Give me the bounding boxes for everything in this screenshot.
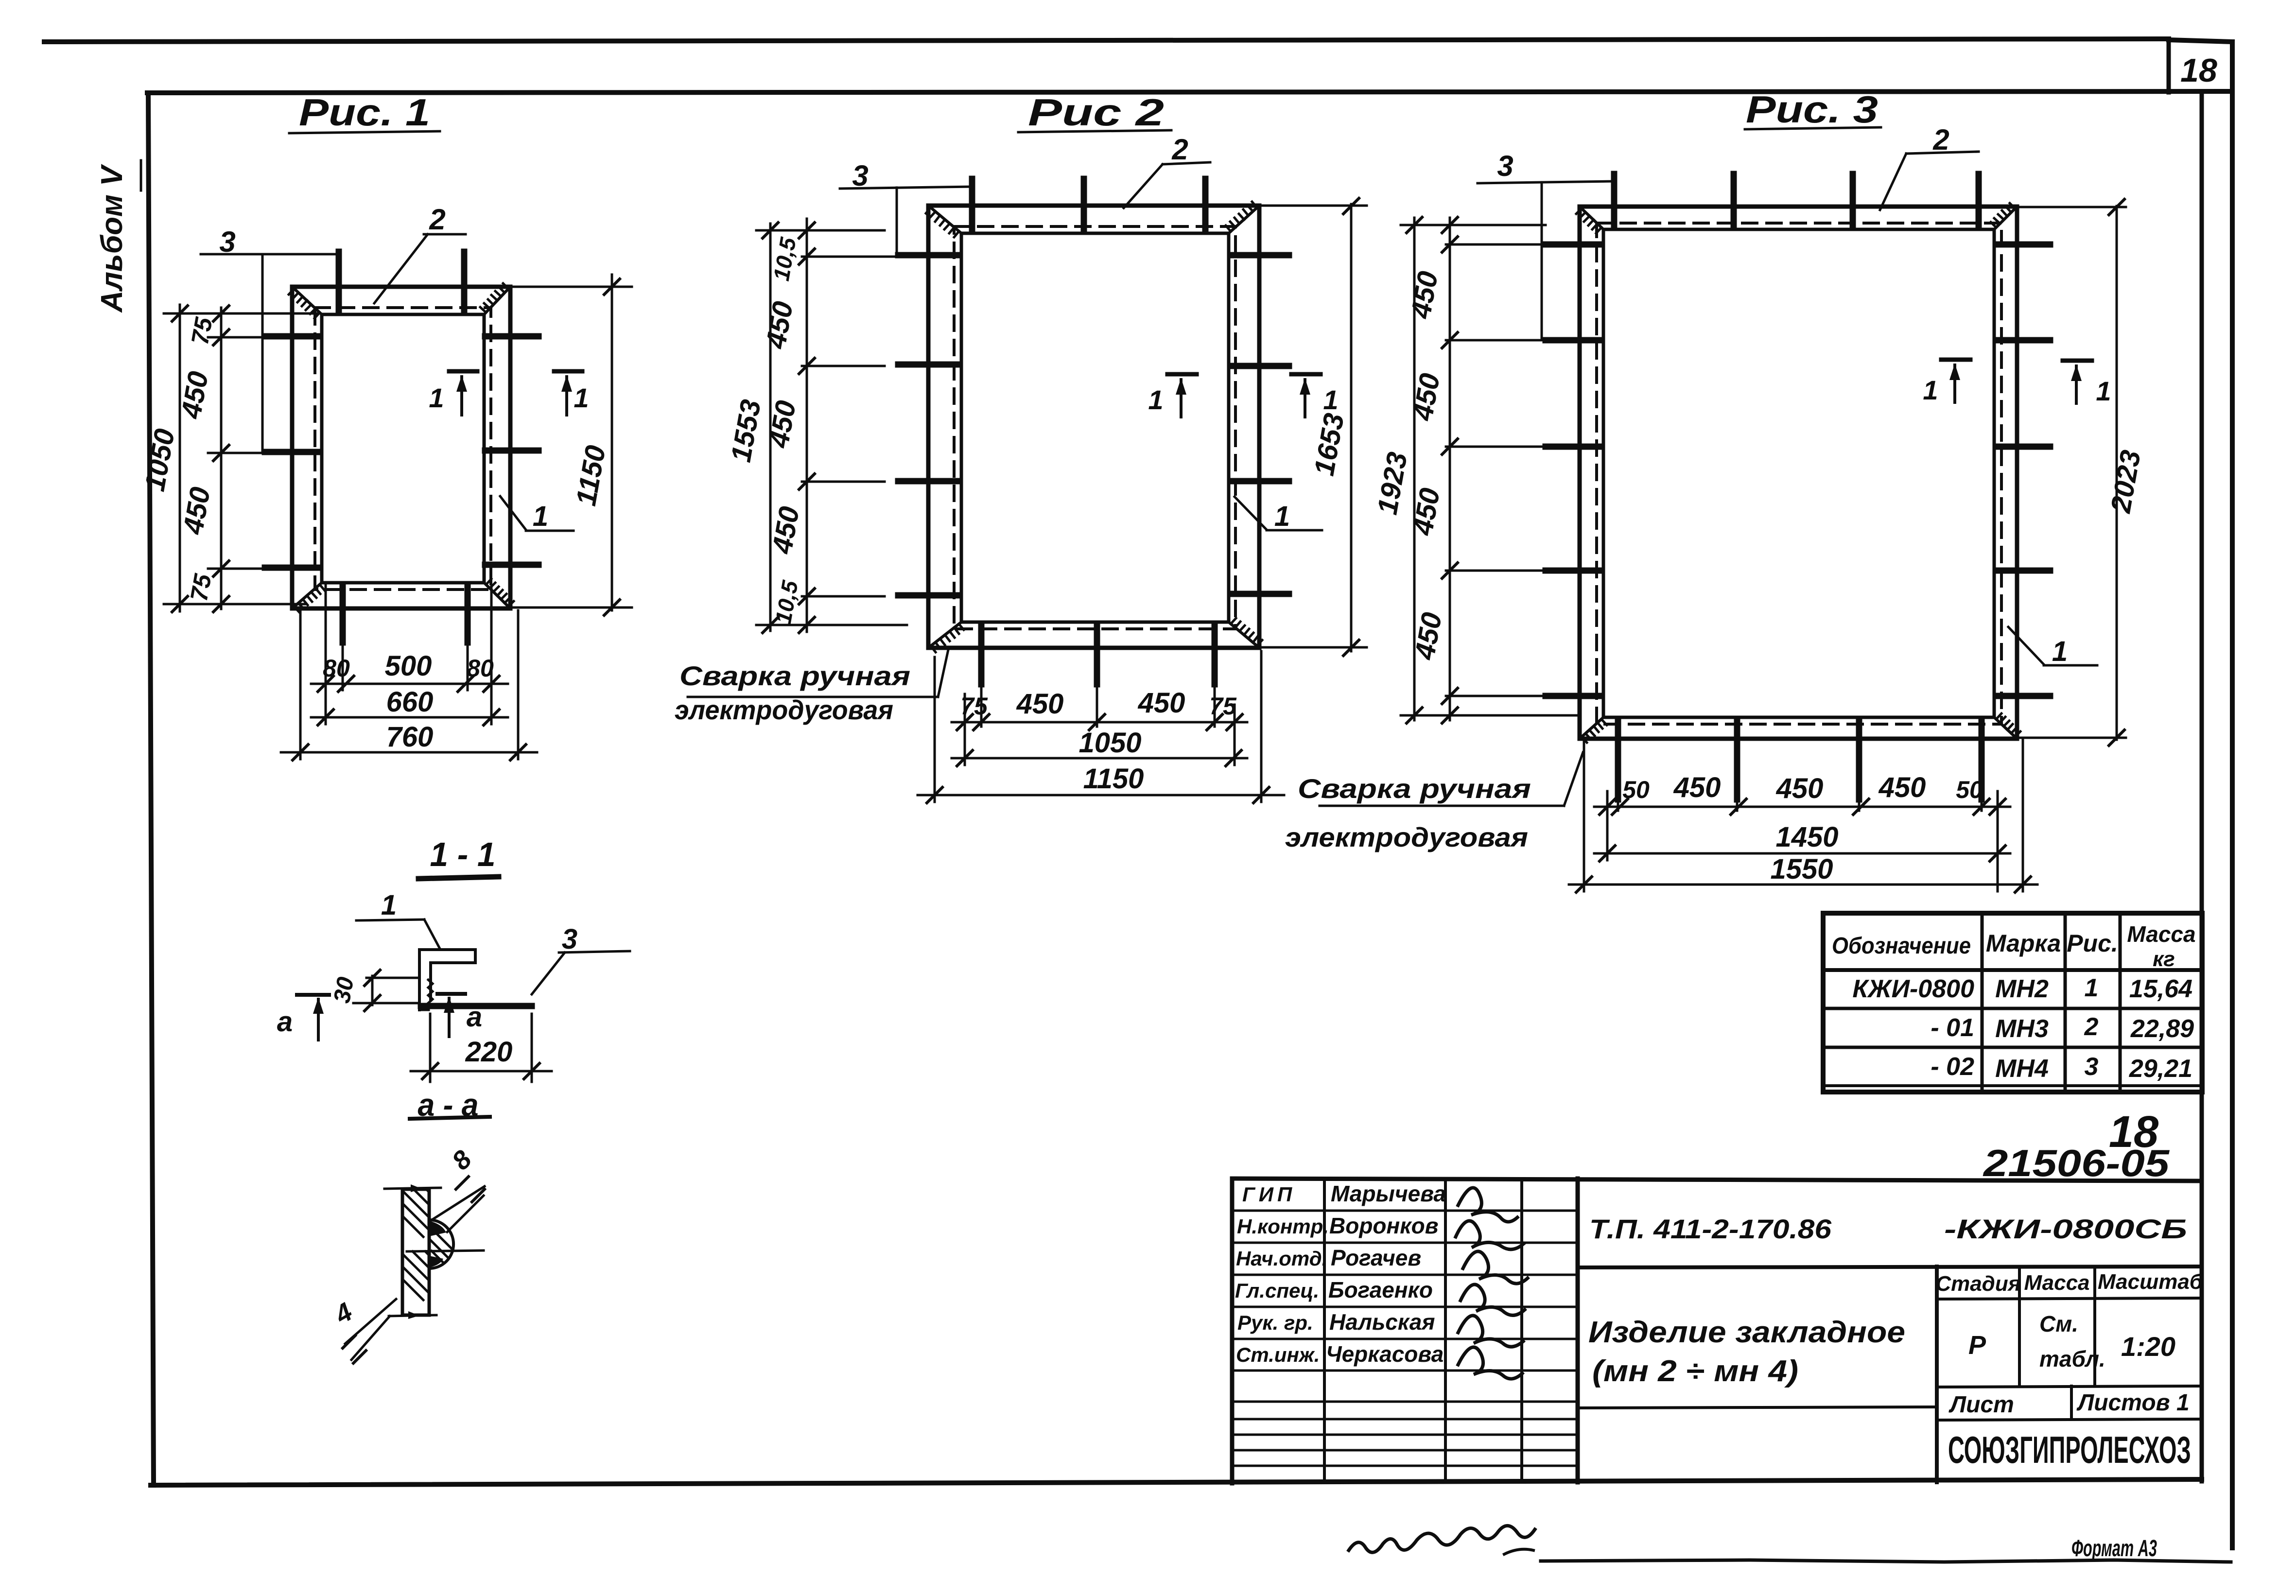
section a-a centerline [407,1250,484,1251]
Рис.2 corner welds [928,206,961,233]
Рис.2 section mark 1-1 left [1167,372,1197,377]
svg-text:Черкасова: Черкасова [1326,1341,1444,1367]
svg-text:1: 1 [1148,384,1163,415]
section a-a plate [402,1189,429,1315]
Рис.3 anchor studs right [1996,242,2050,248]
svg-text:2: 2 [1932,123,1949,156]
svg-text:15,64: 15,64 [2129,975,2192,1003]
svg-text:760: 760 [386,721,434,753]
svg-text:Т.П. 411-2-170.86: Т.П. 411-2-170.86 [1589,1214,1832,1244]
Рис.3 frame inner edge [1603,229,1994,717]
Рис.3 angle heel dashed line [1597,223,2001,724]
section a-a dim 8 [431,1186,485,1220]
svg-text:1: 1 [533,501,548,532]
svg-text:1: 1 [381,889,397,921]
Рис.1 anchor studs bottom [340,586,346,642]
svg-text:50: 50 [1622,776,1650,803]
svg-text:Стадия: Стадия [1935,1272,2020,1296]
svg-text:50: 50 [1956,776,1983,803]
svg-text:450: 450 [1879,772,1926,803]
svg-text:500: 500 [385,650,432,682]
section 1-1 view mark a left [297,993,329,997]
svg-text:450: 450 [1138,687,1185,719]
svg-text:См.: См. [2039,1311,2078,1336]
svg-text:Масштаб: Масштаб [2098,1270,2204,1294]
Рис.2 bottom extension lines [964,694,966,765]
svg-text:21506-05: 21506-05 [1983,1142,2170,1184]
section a-a weld bead [429,1220,453,1268]
svg-text:Богаенко: Богаенко [1328,1277,1433,1302]
Рис.2 frame outer edge [928,206,1259,648]
section 1-1 dim 30 [371,976,374,1005]
svg-text:1:20: 1:20 [2121,1331,2175,1362]
svg-text:Формат А3: Формат А3 [2071,1536,2157,1561]
svg-text:2: 2 [1171,133,1188,166]
Рис.1 anchor studs top [336,252,342,312]
svg-text:80: 80 [323,655,350,682]
svg-text:Альбом V: Альбом V [95,164,129,313]
signatures (handwriting) [1458,1188,1517,1222]
svg-text:Сварка ручная: Сварка ручная [679,660,910,691]
sheet row: Лист / Листов 1 [1937,1386,2202,1387]
Рис.2 bottom chain 75/450/450/75 [980,684,983,727]
svg-text:Рис. 1: Рис. 1 [299,91,430,134]
svg-text:электродуговая: электродуговая [675,694,893,725]
Рис.1 anchor studs left [265,333,318,340]
svg-text:18: 18 [2180,52,2217,89]
svg-text:Марычева: Марычева [1331,1181,1446,1206]
svg-text:1: 1 [2052,636,2068,667]
svg-text:Нальская: Нальская [1329,1309,1435,1335]
svg-text:Лист: Лист [1948,1392,2014,1418]
signature table rows [1232,1210,1578,1212]
section 1-1 dim 220 [429,1014,432,1082]
svg-text:30: 30 [329,975,359,1005]
svg-text:2: 2 [2084,1013,2099,1041]
section a-a plate end lines [384,1188,441,1189]
Рис.3 total 1550 dimension [1569,884,2037,886]
project name cell: Изделие закладное (МН2÷МН4) [1935,1266,1939,1482]
Рис.1 total 660 dimension [311,716,508,719]
Рис.1 section mark 1-1 right [554,369,582,374]
Рис.1 bottom chain 80/500/80 [342,642,344,690]
svg-text:Рис. 3: Рис. 3 [1746,88,1878,131]
svg-text:75: 75 [185,572,217,604]
svg-text:Масса: Масса [2127,921,2195,947]
Рис.1 right 1150 dimension [611,275,613,610]
svg-text:450: 450 [1776,773,1824,804]
svg-text:табл.: табл. [2039,1346,2105,1371]
svg-text:Воронков: Воронков [1329,1213,1439,1238]
svg-text:450: 450 [1673,772,1721,803]
svg-text:ГИП: ГИП [1242,1183,1296,1206]
svg-text:МН3: МН3 [1995,1015,2049,1043]
Рис.3 corner welds [1580,207,1603,229]
svg-text:1 - 1: 1 - 1 [430,835,496,873]
svg-text:Сварка ручная: Сварка ручная [1298,773,1531,804]
svg-text:Ст.инж.: Ст.инж. [1236,1343,1320,1366]
svg-text:Р: Р [1968,1331,1986,1360]
stage/mass/scale header [1937,1298,2202,1299]
section 1-1 angle profile outline [419,950,475,1010]
svg-text:660: 660 [386,686,434,718]
svg-text:3: 3 [1497,150,1513,182]
section 1-1 view mark a right [437,992,465,996]
svg-text:- 01: - 01 [1931,1014,1974,1042]
svg-text:75: 75 [1209,693,1237,720]
section 1-1 weld seam [428,980,433,1007]
svg-text:Изделие закладное: Изделие закладное [1588,1316,1905,1349]
Рис.1 total 1050 dimension [179,305,181,611]
Рис.3 frame outer edge [1580,207,2017,739]
Рис.1 anchor studs right [485,333,539,340]
svg-text:75: 75 [186,315,218,347]
svg-text:1: 1 [1323,384,1338,415]
drawing frame border [147,91,2232,93]
Рис.3 right 2023 dimension [2116,206,2118,740]
svg-text:Марка: Марка [1986,930,2061,957]
Рис.3 section mark 1-1 left [1941,358,1970,362]
Рис.2 anchor studs top [969,179,975,230]
Рис.1 frame outer edge [292,287,510,608]
signature table columns [1323,1179,1326,1482]
Рис.3 total 1450 dimension [1594,852,2010,855]
Рис.1 angle heel dashed line [315,308,491,590]
svg-text:электродуговая: электродуговая [1285,822,1528,852]
svg-text:1: 1 [1274,501,1290,532]
Рис.3 bottom extension lines [1606,791,1609,860]
Рис.2 anchor studs bottom [978,625,985,684]
svg-text:Нач.отд.: Нач.отд. [1236,1247,1327,1270]
svg-text:a: a [467,1001,482,1033]
svg-text:Обозначение: Обозначение [1832,933,1971,959]
Рис.1 section mark 1-1 left [449,369,477,374]
Рис.3 anchor studs left [1546,242,1602,248]
svg-text:a: a [277,1006,293,1038]
Рис.2 section mark 1-1 right [1291,372,1321,377]
Рис.2 right 1653 dimension [1350,204,1353,651]
Рис.2 frame inner edge [961,233,1229,622]
Рис.3 total 1923 dimension [1413,218,1416,720]
svg-text:22,89: 22,89 [2130,1015,2194,1043]
svg-text:1: 1 [1923,375,1938,405]
svg-text:80: 80 [467,655,494,682]
svg-text:- 02: - 02 [1931,1053,1974,1081]
Рис.2 anchor studs left [898,252,957,259]
svg-text:Рогачев: Рогачев [1331,1245,1421,1270]
svg-text:1450: 1450 [1775,821,1838,853]
svg-text:Масса: Масса [2024,1271,2089,1295]
svg-text:2: 2 [429,203,445,236]
Рис.2 anchor studs right [1233,252,1289,259]
svg-text:1: 1 [2085,974,2099,1002]
Рис.2 left chain dimension line [806,219,808,632]
Рис.3 anchor studs bottom [1615,721,1621,799]
svg-text:1: 1 [429,382,444,413]
Рис.2 total 1150 dimension [918,794,1284,797]
svg-text:1550: 1550 [1770,853,1833,885]
Рис.2 angle heel dashed line [954,226,1235,629]
top rule line [44,39,2169,42]
Рис.1 corner welds [292,287,322,314]
svg-text:Листов 1: Листов 1 [2076,1390,2189,1416]
svg-text:Н.контр.: Н.контр. [1237,1215,1329,1238]
svg-text:-КЖИ-0800СБ: -КЖИ-0800СБ [1944,1214,2187,1244]
Рис.2 total 1050 dimension [952,757,1247,760]
spec table frame [1823,913,2202,1092]
svg-text:Рис.: Рис. [2067,930,2118,957]
svg-text:КЖИ-0800: КЖИ-0800 [1852,975,1974,1003]
svg-text:СОЮЗГИПРОЛЕСХОЗ: СОЮЗГИПРОЛЕСХОЗ [1948,1428,2191,1471]
svg-text:3: 3 [562,923,577,955]
section 1-1 flat bar item 3 [421,1003,532,1009]
Рис.1 total 760 dimension [281,751,537,754]
Рис.3 left chain dimension line [1449,218,1451,720]
Рис.2 leader for item 1 [1235,497,1267,530]
svg-text:МН2: МН2 [1995,975,2049,1003]
svg-text:(мн 2 ÷ мн 4): (мн 2 ÷ мн 4) [1592,1354,1798,1388]
sheet number box [2167,41,2171,92]
svg-text:МН4: МН4 [1995,1055,2049,1083]
svg-text:Рис 2: Рис 2 [1028,91,1164,134]
svg-text:кг: кг [2153,947,2175,971]
svg-text:220: 220 [465,1036,513,1068]
svg-text:1: 1 [574,382,589,413]
svg-text:1150: 1150 [1083,763,1144,795]
doc designation row: Т.П. 411-2-170.86 -КЖИ-0800СБ [1578,1266,2202,1267]
svg-text:Рук. гр.: Рук. гр. [1237,1311,1313,1334]
Рис.2 total 1553 dimension [769,224,772,631]
title block outline [1230,1179,1235,1483]
Рис.3 section mark 1-1 right [2063,359,2092,363]
svg-text:Гл.спец.: Гл.спец. [1235,1279,1319,1302]
bottom margin scribble [1349,1526,1535,1552]
Рис.1 left chain dimension line [220,308,223,609]
svg-text:3: 3 [2085,1053,2099,1081]
Рис.3 bottom chain 50/450/450/450/50 [1617,799,1619,811]
svg-text:450: 450 [1016,688,1064,720]
svg-text:29,21: 29,21 [2129,1055,2192,1083]
Рис.2 chain extension lines [756,229,885,232]
Рис.1 frame inner edge [322,314,484,583]
Рис.1 leader for item 1 [500,496,526,530]
Рис.3 anchor studs top [1611,174,1618,226]
bottom margin rule [1541,1560,2231,1562]
Рис.1 chain extension lines [164,312,318,315]
Рис.3 leader for item 1 [2008,627,2044,664]
Рис.3 chain extension lines [1401,224,1546,226]
svg-text:1: 1 [2096,376,2111,406]
svg-text:1050: 1050 [1078,727,1141,759]
Рис.1 bottom extension lines [299,610,302,759]
